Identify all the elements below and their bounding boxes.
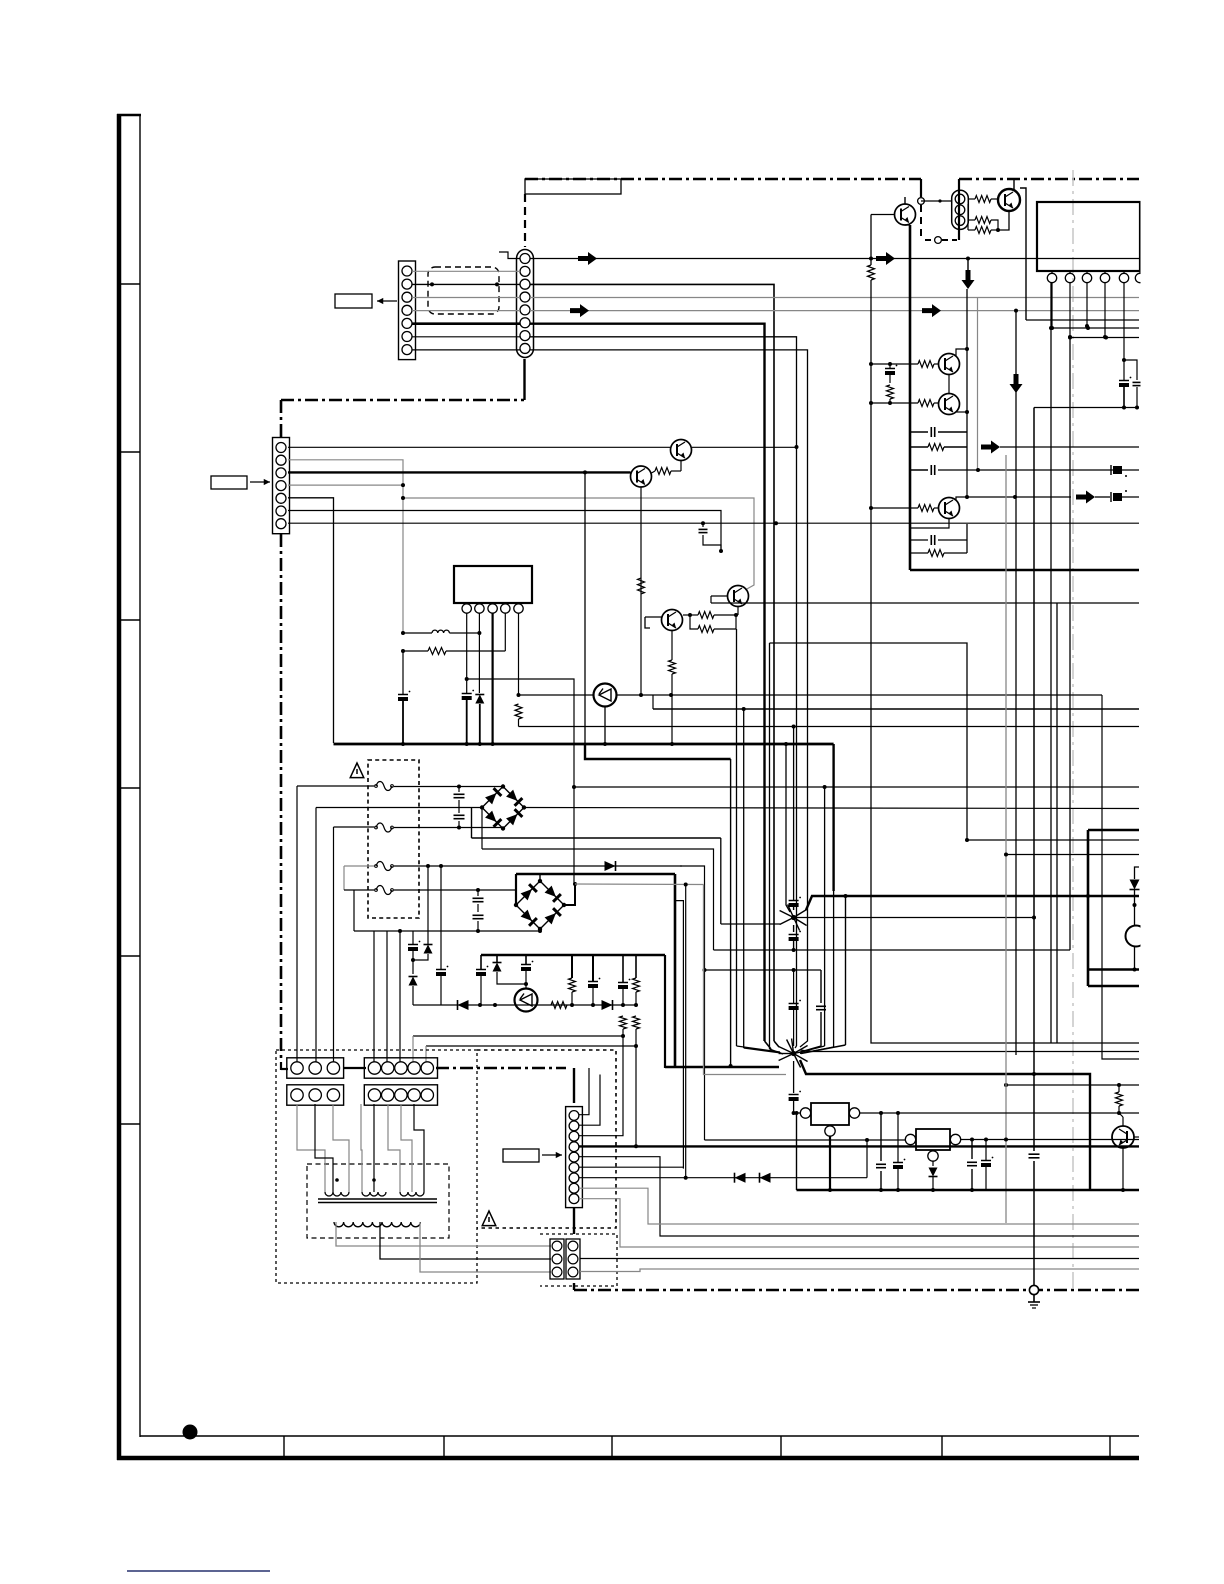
wire Q8 base-collector ties bbox=[645, 617, 662, 628]
boundary dash-dot y400 bbox=[281, 399, 524, 402]
resistor R5 to Q5 base bbox=[871, 361, 939, 368]
resistor R14 bbox=[690, 615, 736, 633]
flow arrow on y310 bbox=[570, 304, 589, 317]
connector CN6 (3-pin) bbox=[287, 1058, 344, 1078]
label arrow to CN1 bbox=[377, 298, 397, 304]
wire CN8.1 to coil bbox=[297, 1104, 325, 1192]
wire y1051 from J2 right bbox=[800, 1050, 1139, 1052]
connector CN9 (5-pin) bbox=[364, 1085, 437, 1105]
wire CN2 pin7 y523 bbox=[288, 521, 1139, 525]
frame left tick 1 bbox=[119, 283, 140, 285]
wire U1 pin1 branch right bbox=[467, 679, 574, 884]
fuse F2 bbox=[375, 823, 394, 832]
fold line (light) vertical bbox=[1072, 170, 1074, 1288]
wire y840 right bbox=[965, 838, 1139, 842]
IC U2 pin 5 bbox=[1119, 271, 1128, 283]
transistor Q6 bbox=[939, 394, 960, 415]
dotted box power block bbox=[276, 1050, 477, 1283]
wire y854 right bbox=[1004, 853, 1139, 857]
diode D3 bbox=[413, 866, 433, 960]
bus wire y336 turn down x796 bbox=[530, 337, 797, 1046]
boundary dashed seg to node B bbox=[925, 239, 934, 241]
wire CN9.1 to coil bbox=[361, 1104, 362, 1192]
IC U1 pin 5 bbox=[514, 604, 523, 613]
wire Q1 base left bbox=[869, 215, 895, 261]
bus wire y349 turn down x807 bbox=[530, 350, 808, 931]
motor M1 circle bbox=[1126, 905, 1147, 970]
wire Q5/Q6 tie bbox=[948, 375, 950, 394]
wire CN2 pin1 bus bbox=[288, 446, 670, 448]
wire node A to CN4 region bbox=[921, 199, 952, 202]
wire x786 into J1 bbox=[784, 742, 790, 912]
thick y896 from J1 bbox=[800, 896, 1139, 911]
wire y1085 from x1006 bbox=[1004, 1083, 1139, 1087]
wire y917 right from J1 bbox=[796, 916, 1036, 920]
frame left tick 5 bbox=[119, 955, 140, 957]
cap C16 electrolytic bbox=[588, 978, 600, 1007]
wire y709 right bbox=[653, 695, 1139, 709]
frame left tick 2 bbox=[119, 451, 140, 453]
wire CN1.2-CN3.3 + junctions bbox=[412, 282, 520, 286]
connector CN3 oval (8-pin) bbox=[517, 250, 534, 358]
IC U2 pin 1 bbox=[1047, 271, 1056, 283]
frame bottom tick 6 bbox=[1109, 1436, 1111, 1458]
resistor R11 between Q4/Q3 bbox=[652, 461, 682, 475]
capacitor C22 bbox=[967, 1140, 977, 1193]
wire CN4 right into IC2 area bbox=[1020, 188, 1026, 320]
wire BR2 bottom bbox=[538, 929, 542, 933]
motor box bottom edge 2 bbox=[1088, 985, 1139, 988]
wire x730 drop to J2 bbox=[729, 759, 733, 1068]
wire F1 right bbox=[394, 785, 503, 789]
diode D7 on y1005 bbox=[602, 1000, 613, 1010]
transistor Q3 bbox=[671, 440, 692, 461]
wire CN3.1 stub left bbox=[499, 252, 520, 259]
transistor Q5 bbox=[939, 354, 960, 375]
ground G1 symbol bbox=[1028, 1295, 1040, 1308]
wire y838 corner chain bbox=[720, 838, 722, 924]
frame top cap bbox=[117, 114, 141, 117]
cap C18 electrolytic bbox=[789, 970, 801, 1046]
wire CN2.1 right bbox=[288, 447, 1139, 449]
wire y900 link bbox=[675, 901, 683, 1169]
frame bottom tick 2 bbox=[443, 1436, 445, 1458]
wire BR2 into box bbox=[539, 874, 541, 881]
connector CN10 label box (empty) bbox=[503, 1149, 539, 1162]
wire y787 branch bbox=[572, 785, 1139, 789]
wire CN8.2 to coil bbox=[315, 1104, 333, 1192]
wire Q10 collector to y497 bbox=[956, 470, 969, 500]
transistor Q1 bbox=[895, 204, 916, 225]
wire y1036 left bbox=[413, 1035, 1139, 1037]
capacitor C7 electrolytic bbox=[462, 679, 474, 744]
wire CN11 out gray bbox=[580, 1269, 1139, 1272]
wire feed3 from x334 bbox=[334, 827, 375, 1062]
wire Q9 out right bbox=[617, 693, 1103, 697]
vertical x1057 bbox=[1056, 603, 1058, 1043]
boundary dashed seg B to riser bbox=[942, 239, 957, 241]
fuse F4 feed bbox=[344, 890, 374, 931]
wire y931 main bbox=[400, 930, 413, 932]
resistor R9 to Q10 base bbox=[871, 505, 939, 512]
wire CN10.5 step bbox=[579, 1157, 1139, 1236]
wire CN1.3-CN3.4 bbox=[412, 297, 520, 299]
cap C15 electrolytic on rail bbox=[521, 955, 533, 989]
wire J1 down cap chain bbox=[789, 925, 801, 952]
wire Q2 emitter down-left loop bbox=[998, 211, 1009, 230]
wire F3 right bbox=[394, 864, 682, 868]
resistor R1 (CN4.1 to Q2) bbox=[968, 196, 998, 203]
wire x796 to thick y1190 bbox=[795, 1111, 799, 1190]
wire Q7 emitter down bbox=[736, 607, 738, 616]
wire Q2 collector up bbox=[1013, 179, 1015, 191]
cap C17 electrolytic bbox=[618, 979, 630, 1005]
capacitor C10 (electrolytic) bbox=[1119, 360, 1131, 410]
flow arrow on y258 (right) bbox=[876, 252, 895, 265]
wire CN2.1 to right edge bbox=[288, 447, 692, 449]
wire y950 bbox=[714, 338, 1071, 950]
left zener chain bbox=[408, 931, 420, 1005]
bus wire y258 with junction bbox=[530, 258, 1139, 260]
wire CN9.2 to coil bbox=[373, 1104, 375, 1192]
wire y695 to Q9 bbox=[519, 694, 595, 696]
wire VR2 out right bbox=[961, 1138, 1139, 1142]
bus thick vertical x833 bbox=[800, 744, 834, 1054]
bus thick GND y744 bbox=[334, 743, 834, 746]
thyristor Q11 (circle device) bbox=[515, 989, 538, 1012]
wire CN2 pin4 to x403 bbox=[288, 483, 405, 487]
label arrow to CN2 bbox=[250, 479, 270, 485]
inductor L1 bbox=[401, 630, 481, 635]
IC U1 pin 4 bbox=[501, 604, 510, 613]
wire U2 pin3 down bbox=[1085, 283, 1089, 328]
wire Q10 emitter to bus bbox=[910, 519, 949, 529]
resistors below bbox=[620, 1016, 640, 1048]
wire y1113 right seg bbox=[1119, 1112, 1139, 1114]
wire U1 pin1 down bbox=[465, 613, 469, 681]
wire x685 drop to diodes bbox=[685, 885, 687, 1179]
cap C19 bbox=[800, 970, 826, 1052]
thick link star2 bbox=[665, 1066, 779, 1069]
wire x426 into B1 bbox=[425, 1046, 427, 1062]
diode D2 on y866 bbox=[605, 861, 616, 871]
wire Q4 emitter down bbox=[640, 487, 642, 695]
wire x977 gray drop bbox=[977, 298, 979, 471]
frame left tick 3 bbox=[119, 619, 140, 621]
boundary dashed drop to CN3 bbox=[524, 194, 526, 247]
connector CN1 (7-pin) bbox=[399, 261, 416, 360]
voltage regulator VR2 bbox=[905, 1129, 960, 1161]
bus wire y497 right bbox=[967, 495, 1071, 499]
wire VR1 gnd thick bbox=[828, 1136, 832, 1192]
fuse F4 bbox=[375, 886, 394, 895]
motor box top thick bbox=[1088, 829, 1139, 832]
wire Q9 bottom to bus bbox=[603, 707, 607, 747]
boundary dashed seg x921 bbox=[920, 205, 922, 237]
wire CN9.3 to coil bbox=[388, 1104, 400, 1192]
wire BR2 right thick bbox=[564, 882, 577, 905]
transformer dashed box bbox=[307, 1164, 449, 1238]
wire secondary out 1 bbox=[336, 1222, 551, 1246]
thick box left x516 bbox=[515, 874, 517, 905]
zener D5 bbox=[493, 955, 529, 986]
capacitor C6 bbox=[699, 523, 724, 553]
wire x796 into J2 bbox=[795, 1046, 797, 1048]
wire CN6-CN7 link bbox=[343, 1067, 366, 1069]
wire U1 pin2 down bbox=[478, 613, 480, 633]
cap C14 electrolytic on rail bbox=[476, 955, 488, 1005]
wire U2 pin4 down bbox=[1103, 283, 1107, 339]
footer rule bbox=[127, 1570, 270, 1572]
wire x871 top bbox=[870, 259, 872, 266]
bus thick corner x910-y570 bbox=[910, 569, 1139, 572]
flow arrow on y310 right bbox=[922, 304, 941, 317]
wire y931 link bbox=[354, 929, 540, 933]
wire VR2 in from x705 bbox=[705, 1139, 906, 1141]
boundary vertical x574 upper bbox=[573, 1068, 575, 1103]
transistor Q10 bbox=[939, 498, 960, 519]
bus wire y297 gray bbox=[530, 297, 1139, 299]
page edge clip bbox=[1141, 0, 1224, 1584]
bus wire y603 bbox=[711, 602, 1139, 604]
wire x1102 drop bbox=[1102, 695, 1139, 1059]
wire U2 pin2 down bbox=[1068, 283, 1072, 339]
resistor R15 bbox=[401, 648, 505, 655]
wire x400 drop to zeners bbox=[399, 931, 401, 940]
wire BR1 right out bbox=[524, 808, 1139, 809]
resistor R12 on Q4 drop bbox=[638, 578, 645, 594]
capacitor C3 on bus x910 bbox=[910, 465, 1139, 477]
wire cap to ground bbox=[1029, 408, 1040, 1286]
wire gray x403 cap bbox=[398, 651, 410, 744]
resistor R10 bbox=[910, 540, 967, 557]
wire J2 down to reg area bbox=[789, 1061, 801, 1115]
boundary vertical x574 mid bbox=[573, 1207, 575, 1234]
capacitor C13 electrolytic+ bbox=[436, 866, 448, 1005]
boundary riser x959 bbox=[958, 179, 960, 240]
IC U2 pin 4 bbox=[1100, 271, 1109, 283]
label box (empty) on top boundary bbox=[525, 179, 621, 194]
resistor R7 vertical bbox=[887, 385, 894, 405]
IC U2 pin 2 bbox=[1065, 271, 1074, 283]
warning triangle 2 bbox=[482, 1211, 496, 1226]
wire F4 right bbox=[394, 888, 516, 892]
flow arrow y497 bbox=[1076, 491, 1110, 504]
wire x769 drop to J2 bbox=[770, 643, 784, 1054]
bus wire y320 bbox=[1026, 319, 1139, 321]
dotted box bottom conn bbox=[540, 1234, 617, 1286]
capacitor C8 pair bbox=[454, 787, 465, 828]
transistor Q9 (circle-triangle) bbox=[594, 684, 617, 707]
motor box left thick bbox=[1087, 830, 1090, 986]
wire CN1.1-CN3.2 bbox=[412, 270, 520, 272]
thick box top y874 bbox=[516, 873, 675, 876]
label box CN2 (empty) bbox=[211, 476, 247, 489]
resistor R18 vert bbox=[633, 978, 640, 1005]
wire cap tie y407 bbox=[1034, 407, 1139, 409]
thick y1074 from J2 bbox=[800, 1060, 1090, 1190]
wire y931 left seg bbox=[400, 930, 478, 932]
wire CN1.7-CN3.8 bbox=[412, 349, 520, 351]
capacitor C2 on bus x910 bbox=[910, 427, 967, 437]
page frame inner rule bottom bbox=[140, 1435, 1139, 1437]
IC U1 pin 3 bbox=[488, 604, 497, 613]
IC U2 body (clipped at page edge) bbox=[1037, 202, 1140, 271]
flow arrow down x1016 bbox=[1010, 374, 1023, 393]
wire feed2 from x316 bbox=[316, 808, 481, 1063]
fuse F3 bbox=[375, 862, 394, 871]
boundary dash-dot left vertical x281 lower bbox=[280, 534, 283, 1062]
transistor Q4 bbox=[631, 466, 652, 487]
IC U2 pin 6 (clipped) bbox=[1135, 271, 1144, 283]
transformer core bbox=[318, 1199, 437, 1203]
flow arrow on y258 (left) bbox=[578, 252, 597, 265]
wire VR1 out right bbox=[860, 1111, 1139, 1115]
wire CN10.4 feed bbox=[579, 1046, 638, 1148]
capacitor C20 bbox=[876, 1113, 886, 1192]
wire y643 corner x769 bbox=[770, 643, 968, 840]
frame bottom tick 3 bbox=[611, 1436, 613, 1458]
resistor R20 vert x1119 bbox=[1116, 1085, 1123, 1115]
wire Q8 emitter down bbox=[669, 631, 676, 745]
wire CN2 pin3 thick y472 bbox=[288, 471, 631, 473]
diode D1 on pin2 drop bbox=[475, 633, 484, 744]
bus wire y284 turn down x774 bbox=[530, 284, 774, 1041]
wire Q7 base left bbox=[711, 596, 728, 603]
bus thick y1190 bbox=[797, 1189, 1140, 1191]
wire CN10.2 feed bbox=[579, 1075, 600, 1126]
bus thick y759 from x585 bbox=[585, 744, 731, 759]
frame left tick 4 bbox=[119, 787, 140, 789]
dotted box AC block bbox=[477, 1050, 616, 1228]
resistor R6 to Q6 base bbox=[871, 400, 939, 407]
bus wire y323 thick turn down x7645 bbox=[530, 324, 765, 1041]
wire U1 pin4 down bbox=[504, 613, 506, 651]
wire CN8.3 to coil bbox=[333, 1104, 349, 1192]
bus thick vertical x910 bbox=[909, 225, 912, 570]
wire x585 drop from y472 bbox=[583, 470, 587, 744]
transistor Q8 bbox=[662, 610, 683, 631]
wire x845 drop to J2 bbox=[801, 894, 848, 1054]
frame bottom tick 5 bbox=[941, 1436, 943, 1458]
wire CN1.4-CN3.5 bbox=[412, 310, 520, 312]
capacitor C23 electrolytic bbox=[981, 1140, 993, 1191]
boundary dash-dot CN7 to x574 bbox=[436, 1067, 566, 1070]
boundary dash-dot bottom run bbox=[574, 1289, 1139, 1292]
frame bottom tick 1 bbox=[283, 1436, 285, 1458]
label arrow to CN10 bbox=[542, 1152, 562, 1158]
wire CN10.8 bbox=[579, 1188, 1139, 1224]
IC U1 body bbox=[454, 566, 532, 603]
capacitor C5 bbox=[910, 524, 967, 545]
wire rail y955 risers bbox=[572, 955, 636, 982]
wire x413 into B1 bbox=[412, 1036, 414, 1062]
resistor R8 on bus x910 bbox=[910, 444, 967, 451]
transformer T1 primary coil 2 bbox=[362, 1178, 386, 1196]
boundary vertical x574 lower bbox=[573, 1283, 575, 1290]
shield dashed box bbox=[428, 267, 499, 314]
wire CN10.4 thick right bbox=[579, 1145, 1139, 1147]
wire Q7 gray from star bbox=[0, 0, 1, 1]
junction dots on GND bus bbox=[401, 742, 674, 746]
wire thick y896 into box bbox=[1086, 894, 1090, 898]
vertical x1051 bbox=[1050, 283, 1052, 1043]
flow arrow down x968 bbox=[962, 257, 975, 290]
wire CN9.5 to coil bbox=[414, 1104, 424, 1192]
wire Q5 collector up-right bbox=[956, 349, 967, 356]
wire CN10.6 bbox=[579, 1166, 683, 1168]
label box CN1 (empty) bbox=[335, 294, 372, 308]
transistor Q7 bbox=[728, 586, 749, 607]
wire gray y884 bbox=[575, 883, 786, 1075]
boundary dash-dot top-right run bbox=[959, 178, 1139, 181]
connector CN10 (9-pin column) bbox=[566, 1107, 583, 1208]
node open circle A bbox=[918, 198, 925, 205]
star junction J2 bbox=[779, 1039, 809, 1068]
wire y849 link bbox=[482, 849, 714, 950]
wire Q12 down to bus bbox=[1121, 1148, 1125, 1192]
vertical x1016 bbox=[1014, 309, 1018, 1055]
wire CN10.3 feed bbox=[579, 1036, 623, 1136]
capacitor C9 pair bbox=[473, 890, 484, 931]
diode D10 pair on y1178 bbox=[684, 1138, 869, 1183]
resistor R4 vertical on x871 bbox=[868, 265, 1140, 1043]
flow arrow y447 bbox=[981, 441, 1139, 454]
transformer T1 secondary bbox=[334, 1222, 420, 1227]
wire CN1.5-CN3.6 (thick) bbox=[412, 322, 520, 325]
wire CN10.7 to diodes bbox=[579, 1177, 686, 1179]
wire y1258 right bbox=[580, 1258, 1139, 1260]
wire y726 right bbox=[519, 726, 1140, 728]
diode D8 in box bbox=[1130, 867, 1140, 907]
wire VR1 in bbox=[794, 1112, 801, 1114]
junction dot y447 on x796 bbox=[795, 445, 799, 449]
page frame inner rule left bbox=[139, 114, 141, 1437]
wire CN9.4 to coil bbox=[401, 1104, 412, 1192]
frame bottom tick 4 bbox=[780, 1436, 782, 1458]
wire x400 feed bbox=[398, 929, 402, 1062]
wire Q6 collector right bbox=[956, 411, 967, 413]
wire CN1.6-CN3.7 bbox=[412, 336, 520, 338]
wire CN2 pin5 down x333 bbox=[288, 498, 334, 743]
page frame outer border (left+bottom) bbox=[117, 114, 1139, 1460]
wire secondary out 2 bbox=[380, 1222, 551, 1272]
IC U1 pin 2 bbox=[475, 604, 484, 613]
wire y866 corner down x704 bbox=[680, 866, 707, 1140]
connector CN2 (7-pin) bbox=[273, 438, 290, 534]
wire CN2 pin2 gray down x403 bbox=[288, 460, 403, 633]
wire U1 pin3 thick down bbox=[492, 613, 494, 744]
capacitor C4 on y497 bbox=[1111, 490, 1139, 502]
motor box bottom thick bbox=[1088, 968, 1139, 972]
capacitor C11 bbox=[1124, 360, 1142, 410]
fuse dashed box bbox=[368, 760, 419, 918]
thick box right x675 bbox=[674, 874, 677, 1067]
wire x807 J1-J2 bbox=[800, 931, 808, 1047]
boundary stub into CN6 bbox=[281, 1062, 288, 1070]
resistor R3 bbox=[968, 220, 998, 234]
boundary dash-dot top run bbox=[525, 178, 921, 181]
connector CN8 (3-pin) bbox=[287, 1085, 344, 1105]
wire U2 pin1 down bbox=[1050, 283, 1054, 330]
connector CN4 oval (3-pin) bbox=[952, 190, 969, 229]
resistor R16 below bbox=[515, 704, 522, 727]
capacitor C21 electrolytic bbox=[893, 1113, 905, 1192]
boundary drop below CN3 to y400 bbox=[523, 359, 525, 400]
bus wire y310 gray bbox=[530, 310, 1139, 312]
wire feed1 from x297 bbox=[297, 786, 374, 1062]
voltage regulator VR1 bbox=[800, 1103, 859, 1136]
